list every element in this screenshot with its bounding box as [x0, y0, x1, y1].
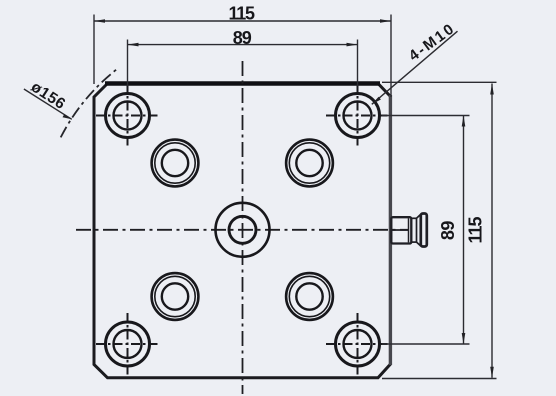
svg-text:115: 115	[466, 217, 486, 244]
svg-text:89: 89	[438, 221, 458, 241]
svg-text:115: 115	[229, 3, 255, 23]
svg-text:89: 89	[233, 28, 252, 48]
